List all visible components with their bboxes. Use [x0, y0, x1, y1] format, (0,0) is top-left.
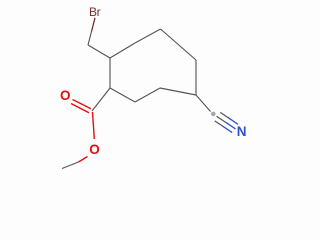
wire O-CH3 bond black half	[62, 162, 79, 169]
wire ring V2 to V3 apex	[135, 29, 161, 43]
wire C=O double bond line 1	[73, 100, 92, 109]
wire C#N triple bond lower parallel black half	[215, 121, 222, 126]
wire C#N triple bond lower parallel blue half	[222, 126, 233, 133]
wire ring V5 to nitrile carbon	[196, 95, 211, 112]
wire ring V8 to ester carbonyl carbon	[92, 88, 110, 111]
svg-text:N: N	[237, 124, 247, 139]
wire C-Br bond upper dark red half	[92, 18, 96, 32]
wire ring V6 to V5	[160, 88, 196, 95]
svg-text:Br: Br	[89, 5, 101, 19]
wire ring right vertical V4-V5	[195, 60, 197, 95]
wire C#N triple bond upper parallel black half	[220, 112, 227, 117]
wire O-CH3 bond red half	[79, 157, 88, 163]
wire CH2 to ring vertex V1	[88, 45, 110, 58]
wire C=O double bond line 2	[71, 104, 89, 113]
wire C-Br bond lower black half	[88, 32, 92, 46]
wire C#N triple bond center line black half	[217, 116, 226, 122]
wire C#N triple bond upper parallel blue half	[227, 117, 238, 124]
svg-text:O: O	[60, 88, 71, 103]
wire ester C-O single bond	[93, 112, 95, 139]
wire ring left vertical V1-V8	[109, 58, 111, 88]
svg-text:O: O	[89, 142, 100, 157]
node nitrile carbon gray dot	[211, 112, 216, 117]
wire ring V8 to V7	[110, 88, 135, 102]
wire ring V3 to V4 long descent	[161, 29, 197, 60]
wire ring V7 to V6	[135, 88, 160, 102]
wire ring V1 to V2	[110, 43, 135, 58]
wire C#N triple bond center line blue half	[226, 122, 236, 129]
